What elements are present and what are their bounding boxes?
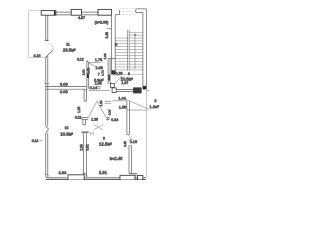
window D bottom: [68, 175, 84, 180]
column box at hall: [110, 83, 114, 87]
wall partition room10/room9 P2: [82, 120, 89, 178]
door D1 left wall leaf: [46, 50, 53, 57]
door D2 room7 opening line: [89, 62, 101, 64]
svg-text:1.2м²: 1.2м²: [149, 104, 159, 109]
socket symbol: [98, 86, 100, 88]
wall closet8 top: [116, 89, 133, 91]
svg-text:1.98: 1.98: [86, 68, 90, 74]
svg-text:0.15: 0.15: [123, 141, 127, 147]
svg-text:3.52: 3.52: [86, 144, 90, 150]
dashed opening overhead: [121, 9, 136, 15]
stairs arrow: [134, 33, 136, 69]
stairs divider stringer: [128, 30, 130, 71]
svg-text:0.34: 0.34: [111, 118, 118, 122]
tick right wall: [146, 89, 149, 91]
wall left exterior W2 lower: [46, 57, 49, 178]
svg-text:0.14: 0.14: [90, 86, 97, 90]
svg-text:2.83: 2.83: [59, 170, 68, 175]
wall left exterior W2 upper: [44, 15, 49, 41]
svg-text:2.91: 2.91: [99, 170, 108, 175]
wall top exterior W1: [56, 12, 112, 15]
svg-text:0.12: 0.12: [77, 57, 84, 61]
wall entry lower line: [127, 109, 147, 111]
hatched wall block right of closet: [133, 87, 142, 93]
wall segment right of window E: [138, 175, 143, 179]
gap ticks: [129, 140, 132, 146]
svg-text:23.5м²: 23.5м²: [63, 48, 76, 53]
wall top-right stub: [136, 9, 147, 13]
svg-text:1.55: 1.55: [119, 106, 126, 110]
svg-text:1.03: 1.03: [103, 53, 107, 59]
svg-text:0.14: 0.14: [32, 139, 39, 143]
wall room7 right W5: [108, 59, 115, 84]
svg-text:16.8м²: 16.8м²: [60, 132, 73, 137]
wall cap stub right of stairwell wall: [115, 10, 119, 15]
svg-text:1.44: 1.44: [118, 96, 125, 100]
balcony outline: [29, 11, 46, 58]
svg-text:0.14: 0.14: [107, 109, 111, 115]
svg-text:0.12: 0.12: [75, 116, 81, 120]
svg-text:0.15: 0.15: [130, 140, 137, 144]
door D1 arc: [48, 43, 54, 50]
svg-text:11: 11: [66, 43, 70, 47]
wall bottom exterior W9: [46, 177, 146, 179]
svg-text:0.28: 0.28: [115, 72, 122, 76]
wall corridor left stub: [84, 89, 87, 101]
leader line room8: [125, 99, 150, 110]
door D3 stair landing arc: [114, 75, 122, 83]
door D2 leaf: [89, 63, 101, 69]
door D4 double leaves: [88, 101, 106, 117]
door D4 lower cross: [94, 125, 104, 131]
stairs flight right treads: [129, 32, 143, 70]
tick stair dim: [107, 28, 112, 30]
stairs flight left treads: [115, 38, 127, 70]
wall room7 bottom thin: [89, 89, 110, 91]
window A top-left: [41, 11, 56, 16]
window C top wall: [98, 9, 112, 15]
svg-text:1.26: 1.26: [77, 106, 81, 112]
hatched end blob: [112, 70, 116, 74]
window B top wall: [71, 9, 81, 15]
wall room9 top W7: [82, 118, 109, 120]
svg-text:1.28: 1.28: [91, 118, 98, 122]
svg-text:2.08: 2.08: [60, 89, 69, 94]
wall room11 bottom W6: [46, 86, 87, 89]
wall room9 right W8 lower: [129, 146, 137, 176]
svg-text:(в=2.63): (в=2.63): [95, 21, 109, 25]
svg-text:2.98: 2.98: [79, 144, 83, 150]
svg-text:7: 7: [98, 73, 100, 77]
tick 0.28: [112, 72, 114, 75]
wall stub hall bottom right: [105, 102, 112, 104]
wall closet8 bottom thin: [112, 100, 127, 102]
svg-text:9: 9: [103, 137, 105, 141]
wall partition room11/room7 P1: [87, 61, 89, 90]
svg-text:1.97: 1.97: [121, 81, 128, 85]
tick 0.34: [107, 118, 109, 121]
wall right exterior thin: [146, 90, 148, 177]
wall stairwell right W4: [143, 9, 147, 90]
svg-text:12.5м²: 12.5м²: [99, 142, 112, 147]
door P2 threshold marks: [91, 132, 93, 136]
svg-text:2.21: 2.21: [82, 69, 86, 75]
dimension tick left wall: [44, 83, 49, 85]
wall room9 right W8 upper: [127, 101, 130, 134]
door leaf W8: [127, 134, 132, 139]
door tick hall: [107, 109, 110, 112]
landing edge: [115, 73, 143, 75]
bottom dim ticks: [45, 173, 88, 176]
wall stairwell left W3: [112, 9, 143, 74]
tick: [40, 140, 43, 142]
svg-text:6: 6: [128, 72, 130, 76]
svg-text:3.08: 3.08: [60, 82, 69, 87]
svg-text:1.68: 1.68: [96, 66, 103, 70]
window E bottom: [120, 175, 135, 180]
svg-text:3.48: 3.48: [105, 32, 109, 38]
svg-text:1.71: 1.71: [101, 70, 105, 76]
svg-text:0.15: 0.15: [34, 54, 41, 58]
svg-text:1.78: 1.78: [95, 58, 102, 62]
svg-text:10: 10: [65, 126, 69, 130]
svg-text:в=2.48: в=2.48: [110, 156, 123, 161]
svg-text:1.25: 1.25: [99, 100, 103, 106]
svg-text:8: 8: [155, 99, 157, 103]
svg-text:4.57: 4.57: [78, 16, 85, 20]
